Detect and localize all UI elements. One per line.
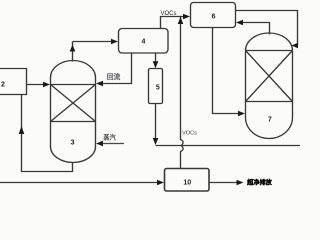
svg-text:VOCs: VOCs	[182, 130, 197, 136]
svg-text:10: 10	[183, 179, 191, 186]
svg-text:VOCs: VOCs	[160, 11, 176, 17]
svg-text:回流: 回流	[107, 72, 121, 81]
svg-text:2: 2	[1, 82, 5, 89]
svg-text:蒸汽: 蒸汽	[103, 132, 116, 141]
svg-text:4: 4	[141, 39, 145, 46]
svg-text:超净排放: 超净排放	[246, 179, 273, 187]
svg-text:3: 3	[71, 139, 75, 146]
svg-text:5: 5	[156, 85, 160, 92]
svg-text:7: 7	[268, 116, 272, 123]
svg-text:6: 6	[212, 14, 216, 21]
